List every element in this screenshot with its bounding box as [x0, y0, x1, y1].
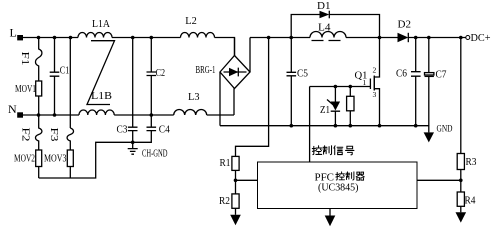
- ground below R2: [230, 215, 241, 225]
- wire bridge negative to GND rail: [219, 72, 221, 126]
- terminal N: [8, 102, 23, 118]
- svg-text:1: 1: [363, 78, 367, 87]
- capacitor C7: [425, 38, 447, 126]
- resistor gate R: [347, 87, 354, 126]
- resistor R4: [457, 180, 476, 212]
- svg-text:R1: R1: [220, 158, 231, 169]
- fuse F1: [19, 38, 42, 82]
- node CH-GND junction: [131, 141, 135, 145]
- wire Q1 gate: [310, 85, 370, 89]
- label UC3845: [318, 183, 359, 194]
- capacitor C3: [117, 38, 138, 143]
- svg-text:F3: F3: [48, 128, 59, 142]
- svg-text:C2: C2: [156, 68, 166, 79]
- resistor R3: [457, 38, 476, 181]
- capacitor C1: [50, 38, 70, 116]
- svg-text:F1: F1: [19, 52, 30, 66]
- wire MOV earth bus: [39, 142, 131, 178]
- svg-text:MOV2: MOV2: [14, 154, 35, 165]
- svg-text:C6: C6: [396, 69, 407, 80]
- pin 3 Q1 source: [373, 90, 377, 99]
- svg-text:C5: C5: [297, 69, 308, 80]
- PFC controller U1 box: [258, 162, 418, 209]
- wire DC+ rail: [250, 37, 466, 39]
- wire divider to PFC box: [236, 179, 258, 181]
- node dots GND rail: [290, 124, 418, 128]
- ground below R4: [456, 212, 467, 222]
- varistor MOV3: [44, 150, 73, 178]
- pin 1 Q1 gate: [363, 78, 367, 87]
- inductor L4: [310, 22, 346, 41]
- wire bridge AC bottom: [233, 89, 235, 116]
- svg-text:2: 2: [373, 66, 377, 75]
- wire bridge AC top: [234, 38, 236, 56]
- pin 2 Q1 drain: [373, 66, 377, 75]
- capacitor C5: [287, 38, 309, 126]
- inductor L1A: [78, 18, 112, 38]
- wire control signal line: [309, 87, 311, 163]
- wire input-voltage sense: [236, 38, 269, 157]
- svg-text:R2: R2: [219, 196, 230, 207]
- varistor MOV2: [14, 150, 42, 178]
- svg-text:C4: C4: [159, 124, 171, 135]
- wire N rail: [23, 114, 234, 116]
- node R3-R4: [459, 179, 463, 183]
- svg-text:DC+: DC+: [471, 32, 491, 44]
- capacitor C2: [147, 38, 166, 116]
- svg-text:3: 3: [373, 90, 377, 99]
- fuse F3: [48, 128, 74, 151]
- label control signal: [312, 146, 354, 155]
- node dots N rail: [37, 113, 153, 117]
- capacitor C6: [396, 38, 421, 126]
- svg-text:C7: C7: [436, 70, 447, 81]
- terminal DC+: [466, 32, 491, 44]
- node dots DC+ rail: [267, 36, 463, 40]
- varistor MOV1: [15, 81, 42, 115]
- diode D2: [398, 20, 412, 43]
- wire L-to-F3 branch: [69, 38, 71, 129]
- ground GND: [424, 125, 453, 143]
- svg-text:PFC: PFC: [315, 171, 335, 183]
- svg-text:L1A: L1A: [92, 18, 110, 30]
- wire GND rail: [220, 126, 429, 133]
- svg-text:D2: D2: [398, 20, 412, 31]
- svg-text:CH-GND: CH-GND: [142, 149, 168, 160]
- wire PFC feedback: [417, 179, 461, 181]
- svg-text:L1B: L1B: [91, 90, 112, 102]
- svg-text:C3: C3: [117, 124, 128, 135]
- svg-text:L3: L3: [188, 91, 200, 103]
- svg-text:MOV3: MOV3: [44, 154, 67, 165]
- svg-text:L: L: [10, 26, 17, 40]
- diode D1: [317, 1, 331, 18]
- svg-text:C1: C1: [60, 66, 70, 77]
- capacitor C4: [133, 115, 171, 142]
- zener Z1: [320, 87, 340, 126]
- svg-text:(UC3845): (UC3845): [318, 183, 359, 194]
- wire bridge positive riser: [249, 38, 251, 73]
- svg-text:R3: R3: [466, 157, 477, 168]
- svg-text:N: N: [8, 102, 17, 116]
- svg-text:L4: L4: [318, 22, 331, 34]
- choke core: [87, 41, 115, 105]
- fuse F2: [20, 115, 42, 150]
- inductor L2: [181, 15, 215, 38]
- label PFC controller: [315, 171, 365, 183]
- bridge rectifier BRG-1: [196, 56, 251, 89]
- terminal L: [10, 26, 24, 41]
- svg-text:D1: D1: [317, 1, 331, 12]
- node R1-R2: [234, 179, 238, 183]
- svg-text:L2: L2: [185, 15, 197, 27]
- wire L rail: [23, 38, 235, 56]
- svg-text:GND: GND: [437, 125, 453, 135]
- resistor R2: [219, 180, 239, 215]
- svg-text:BRG-1: BRG-1: [196, 65, 216, 76]
- svg-text:R4: R4: [465, 196, 477, 207]
- chassis ground CH-GND: [128, 142, 168, 159]
- transistor Q1 (MOSFET): [355, 38, 380, 126]
- wire D1 bypass branch: [291, 15, 379, 38]
- svg-text:Z1: Z1: [320, 105, 330, 116]
- inductor L3: [174, 91, 207, 115]
- inductor L1B: [79, 90, 114, 115]
- ground below PFC box: [325, 209, 336, 227]
- node dots L rail: [37, 36, 153, 40]
- svg-text:F2: F2: [20, 128, 31, 142]
- svg-text:MOV1: MOV1: [15, 84, 36, 95]
- resistor R1: [220, 156, 240, 180]
